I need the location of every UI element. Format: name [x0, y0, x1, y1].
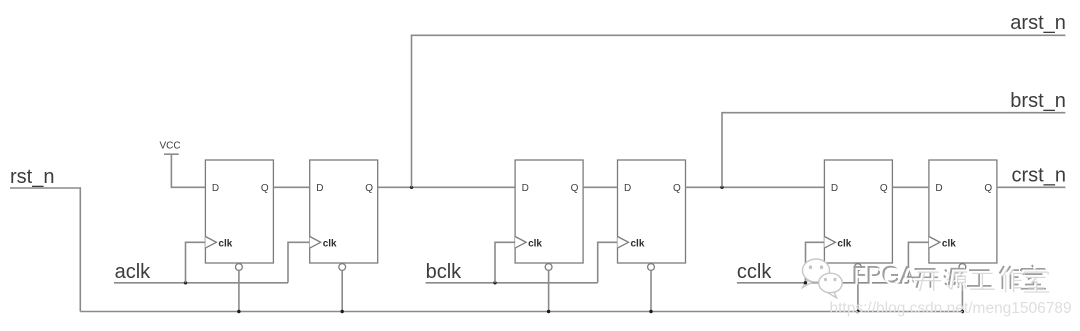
svg-text:crst_n: crst_n [1012, 165, 1066, 187]
clock wedge U2 [310, 237, 321, 249]
watermark chinese characters (embossed strokes) [912, 265, 1049, 292]
junction U5 reset on rail [856, 310, 859, 313]
wire bclk run [426, 282, 598, 284]
flip-flop U2 [310, 160, 378, 270]
wire brst_n riser and top run [722, 113, 1065, 188]
svg-text:cclk: cclk [737, 261, 772, 283]
flip-flop U5 [824, 160, 892, 270]
junction U6 reset at rail end [961, 310, 964, 313]
wire U1 reset bubble to rail [238, 270, 240, 311]
wire U2 Q to U3 D (net arst_n) [378, 186, 515, 188]
svg-text:clk: clk [528, 239, 542, 250]
watermark text FPGA (embossed) [852, 262, 918, 291]
svg-text:D: D [624, 183, 631, 194]
junction cclk to U5 clk [804, 281, 807, 284]
svg-text:Q: Q [880, 183, 888, 194]
svg-text:VCC: VCC [160, 141, 181, 152]
svg-text:Q: Q [673, 183, 681, 194]
reset bubble U6 [959, 264, 966, 271]
svg-text:D: D [316, 183, 323, 194]
svg-text:Q: Q [571, 183, 579, 194]
wire bclk to U3 clk [495, 242, 515, 282]
svg-text:Q: Q [261, 183, 269, 194]
watermark wechat icon [803, 259, 843, 298]
svg-text:Q: Q [984, 183, 992, 194]
flip-flop U6 [929, 160, 997, 270]
junction aclk to U1 clk [184, 281, 187, 284]
wire aclk to U1 clk [186, 242, 206, 282]
svg-text:rst_n: rst_n [10, 166, 54, 188]
wire U2 reset bubble to rail [341, 270, 343, 311]
junction U3 reset on rail [547, 310, 550, 313]
reset bubble U5 [855, 264, 862, 271]
wire aclk run [114, 282, 288, 284]
svg-text:clk: clk [942, 239, 956, 250]
svg-text:aclk: aclk [115, 261, 152, 283]
wire VCC to U1 pin D [171, 154, 205, 187]
junction arst_n tap [410, 186, 413, 189]
wire cclk to U5 clk [806, 242, 825, 282]
svg-text:D: D [935, 183, 942, 194]
junction cclk to U5 clk (over watermark) [804, 281, 807, 284]
svg-text:D: D [522, 183, 529, 194]
svg-text:clk: clk [837, 239, 851, 250]
wire U3 reset bubble to rail [548, 270, 550, 311]
wire U3 Q to U4 D [583, 186, 617, 188]
svg-text:brst_n: brst_n [1010, 90, 1066, 112]
reset bubble U2 [339, 264, 346, 271]
reset bubble U1 [236, 264, 243, 271]
junction brst_n tap [720, 186, 723, 189]
wire cclk to U6 clk [908, 242, 929, 282]
clock wedge U5 [824, 237, 835, 249]
wire bclk to U4 clk [598, 242, 618, 282]
svg-text:clk: clk [631, 239, 645, 250]
power VCC symbol [160, 141, 181, 155]
reset bubble U4 [648, 264, 655, 271]
flip-flop U4 [618, 160, 686, 270]
svg-text:clk: clk [218, 239, 232, 250]
wire U4 Q to U5 D (net brst_n) [686, 186, 825, 188]
wire U6 reset bubble to rail [961, 270, 963, 311]
clock wedge U4 [618, 237, 629, 249]
reset bubble U3 [545, 264, 552, 271]
junction bclk to U3 clk [493, 281, 496, 284]
wire U5 reset bubble to rail [857, 270, 859, 311]
svg-text:https://blog.csdn.net/meng1506: https://blog.csdn.net/meng1506789 [830, 300, 1072, 317]
junction U4 reset on rail [649, 310, 652, 313]
svg-text:D: D [831, 183, 838, 194]
svg-text:arst_n: arst_n [1010, 12, 1066, 34]
wire arst_n riser and top run [412, 35, 1066, 187]
wire rst_n from label down to reset rail [10, 188, 80, 312]
flip-flop U1 [205, 160, 273, 270]
clock wedge U3 [515, 237, 526, 249]
clock wedge U6 [929, 237, 940, 249]
svg-text:clk: clk [323, 239, 337, 250]
junction U1 reset on rail [237, 310, 240, 313]
wire U6 Q output crst_n [997, 186, 1066, 188]
junction U2 reset on rail [341, 310, 344, 313]
flip-flop U3 [515, 160, 583, 270]
svg-text:Q: Q [365, 183, 373, 194]
wire aclk to U2 clk [288, 242, 310, 282]
wire U4 reset bubble to rail [650, 270, 652, 311]
clock wedge U1 [205, 237, 216, 249]
wire cclk run [737, 282, 909, 284]
svg-text:D: D [212, 183, 219, 194]
wire U1 Q to U2 D [273, 186, 309, 188]
wire U5 Q to U6 D [892, 186, 929, 188]
wire reset rail along bottom [80, 311, 962, 313]
svg-text:bclk: bclk [426, 261, 463, 283]
svg-text:FPGA: FPGA [854, 264, 918, 291]
